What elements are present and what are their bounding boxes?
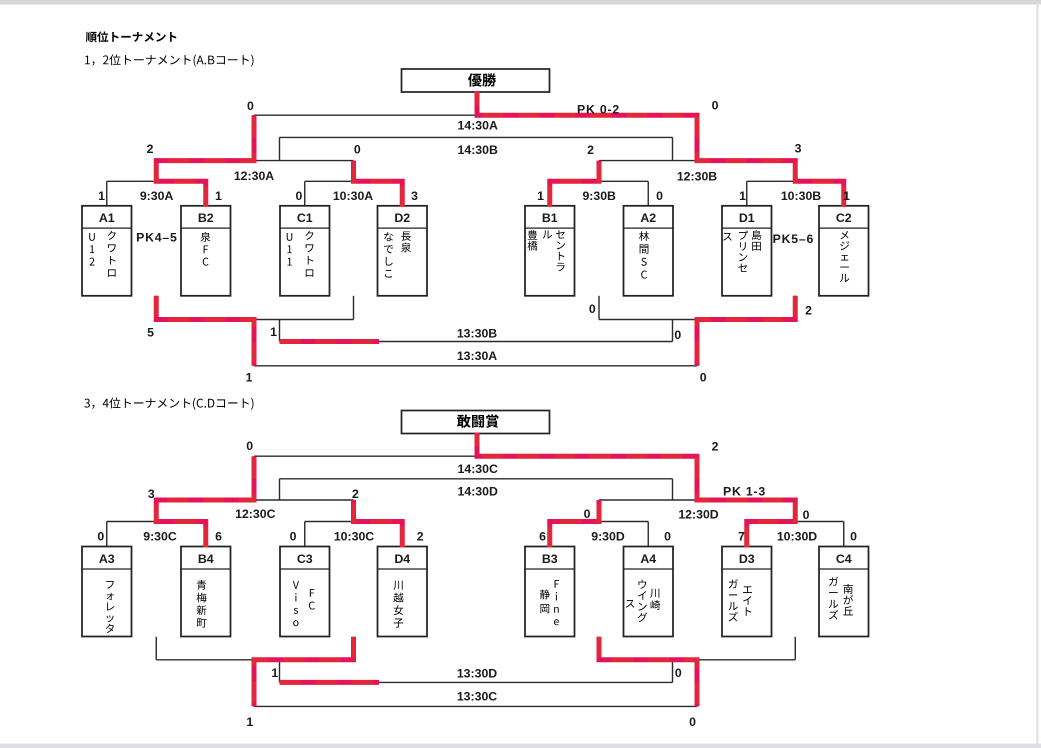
svg-text:0: 0 [247,99,254,113]
bracket2: losers line left [156,637,353,707]
svg-text:PK 1-3: PK 1-3 [723,485,766,499]
bracket1: quarterfinal bracket 9:30B [550,161,649,206]
svg-text:0: 0 [689,715,696,729]
svg-text:B1: B1 [542,211,558,225]
bracket1: consolation line 14:30B [280,137,673,160]
svg-text:10:30D: 10:30D [777,530,817,544]
svg-text:10:30B: 10:30B [781,189,821,203]
bracket1: final match line 14:30A [254,114,697,116]
svg-text:10:30A: 10:30A [333,189,373,203]
svg-text:14:30C: 14:30C [458,462,498,476]
svg-text:3: 3 [148,487,155,501]
team box C2 [819,206,869,296]
svg-text:A1: A1 [99,211,115,225]
winner path (red): B2 wins 9:30A + 12:30A, lost final [156,115,254,207]
bracket1: losers line right [599,296,795,366]
svg-text:2: 2 [147,142,154,156]
fighting-spirit label: 敢闘賞 [457,414,499,427]
svg-text:A3: A3 [99,552,115,566]
svg-text:6: 6 [539,530,546,544]
winner path (red): C3 drops, wins lower-left [254,637,354,707]
svg-text:0: 0 [803,508,810,522]
svg-text:0: 0 [674,328,681,342]
svg-text:C3: C3 [297,552,313,566]
bracket2: consolation line 13:30D [280,660,673,683]
svg-text:13:30B: 13:30B [457,326,497,340]
svg-text:1: 1 [270,325,277,339]
winner path (red): B3 wins 9:30D [550,500,599,548]
svg-text:D4: D4 [394,552,410,566]
winner path (red): D4 wins 10:30C [354,500,403,548]
svg-text:A2: A2 [640,211,656,225]
scan artifact: bottom grey band [0,744,1041,748]
svg-text:13:30A: 13:30A [457,349,497,363]
champion box 優勝 [402,69,550,92]
svg-text:13:30D: 13:30D [457,667,497,681]
svg-text:0: 0 [295,189,302,203]
svg-text:B4: B4 [198,552,214,566]
svg-text:B3: B3 [542,552,558,566]
team box A1 [82,206,132,296]
svg-text:D1: D1 [739,211,755,225]
champion box 敢闘賞 [402,411,550,434]
svg-text:1: 1 [739,189,746,203]
bracket2: semifinal line right [599,456,795,500]
team box A4 [624,547,674,637]
subtitle bracket 1: 1，2位トーナメント(A.Bコート) [85,54,253,66]
team box B4 [181,547,231,637]
champion label: 優勝 [468,73,496,86]
svg-text:14:30A: 14:30A [458,119,498,133]
team box C4 [819,547,869,637]
bracket2: quarterfinal bracket 10:30D [747,500,844,547]
svg-text:D3: D3 [739,552,755,566]
svg-text:2: 2 [417,530,424,544]
bracket2: consolation line 14:30D [280,479,673,500]
svg-text:A4: A4 [640,552,656,566]
bracket1: last-place line 13:30A [254,365,697,367]
bracket2: quarterfinal bracket 9:30C [107,500,206,547]
winner path (red): D2 wins 10:30A [354,161,403,207]
svg-text:B2: B2 [198,211,214,225]
svg-text:2: 2 [712,440,719,454]
team box D2 [378,206,428,296]
svg-text:12:30D: 12:30D [678,507,718,521]
svg-text:0: 0 [712,98,719,112]
svg-text:1: 1 [246,715,253,729]
svg-text:1: 1 [537,189,544,203]
team box D1 [722,206,772,296]
team box A3 [82,547,132,637]
team box B2 [181,206,231,296]
svg-text:PK 0-2: PK 0-2 [577,102,620,116]
winner path (red): B4 wins 9:30C + 12:30C, lost final [156,456,254,547]
svg-text:PK4–5: PK4–5 [136,230,178,244]
svg-text:1: 1 [98,189,105,203]
bracket1: consolation line 13:30B [280,320,673,342]
svg-text:0: 0 [290,530,297,544]
winner path (red): C4? wins 13:30D [280,680,380,685]
svg-text:D2: D2 [394,211,410,225]
team box C3 [280,547,330,637]
svg-text:C2: C2 [836,211,852,225]
svg-text:1: 1 [271,666,278,680]
bracket2: final match line 14:30C [254,455,697,457]
bracket2: last-place line 13:30C [254,705,697,707]
svg-text:7: 7 [738,530,745,544]
bracket1: quarterfinal bracket 10:30B [747,161,844,206]
svg-text:9:30A: 9:30A [140,189,174,203]
bracket1: semifinal line right [599,115,795,160]
subtitle bracket 2: 3，4位トーナメント(C.Dコート) [84,398,253,410]
bracket2: quarterfinal bracket 9:30D [550,500,649,547]
svg-text:14:30D: 14:30D [458,485,498,499]
svg-text:0: 0 [246,439,253,453]
bracket1: losers line left [156,296,353,366]
svg-text:0: 0 [700,371,707,385]
team box B1 [525,206,575,296]
svg-text:2: 2 [587,143,594,157]
svg-text:6: 6 [215,530,222,544]
scan artifact: top grey band [0,0,1041,5]
svg-text:C1: C1 [297,211,313,225]
bracket1: semifinal line left [156,115,353,160]
team box A2 [624,206,674,296]
main title: 順位トーナメント [86,31,177,42]
winner path (red): C2 wins 10:30B, semi, final PK [477,91,844,207]
winner path (red): A4 drops, wins lower-right [599,637,697,707]
bracket2: quarterfinal bracket 10:30C [305,500,403,547]
scan artifact: right edge line [1036,3,1038,744]
bracket1: quarterfinal bracket 9:30A [107,161,206,206]
team box B3 [525,547,575,637]
svg-text:0: 0 [97,530,104,544]
bracket2: semifinal line left [156,456,353,500]
svg-text:0: 0 [675,666,682,680]
bracket1: quarterfinal bracket 10:30A [305,161,403,206]
svg-text:9:30C: 9:30C [143,530,177,544]
svg-text:12:30C: 12:30C [235,507,275,521]
svg-text:1: 1 [246,371,253,385]
svg-text:0: 0 [656,189,663,203]
svg-text:1: 1 [843,189,850,203]
score and time labels [97,98,857,729]
svg-text:3: 3 [411,189,418,203]
svg-text:10:30C: 10:30C [334,530,374,544]
svg-text:5: 5 [147,326,154,340]
team box C1 [280,206,330,296]
team box D4 [378,547,428,637]
team box D3 [722,547,772,637]
svg-text:1: 1 [215,189,222,203]
winner path (red): C1 wins 13:30B [280,339,380,344]
svg-text:12:30A: 12:30A [234,169,274,183]
winner path (red): D3 wins 10:30D, semi PK, final [477,433,795,548]
svg-text:0: 0 [354,143,361,157]
winner path (red): B1 wins 9:30B [550,161,599,207]
svg-text:13:30C: 13:30C [457,690,497,704]
winner path (red): D1 drops, wins lower-right [697,296,795,366]
svg-text:0: 0 [664,530,671,544]
svg-text:0: 0 [589,302,596,316]
svg-text:9:30B: 9:30B [582,189,616,203]
svg-text:0: 0 [584,507,591,521]
svg-text:9:30D: 9:30D [591,530,625,544]
svg-text:14:30B: 14:30B [458,143,498,157]
svg-text:0: 0 [850,530,857,544]
svg-text:2: 2 [352,487,359,501]
svg-text:PK5–6: PK5–6 [773,232,815,246]
svg-text:2: 2 [805,304,812,318]
svg-text:3: 3 [795,142,802,156]
svg-text:12:30B: 12:30B [677,169,717,183]
svg-text:C4: C4 [836,552,852,566]
winner path (red): A1 drops, wins lower-left [156,296,254,366]
bracket2: losers line right [599,637,795,707]
